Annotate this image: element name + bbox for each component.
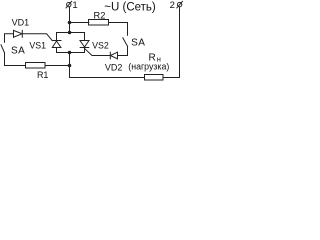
svg-text:2: 2 <box>170 0 175 11</box>
thyristor VS1 <box>29 33 61 53</box>
diode VD1 <box>12 18 30 38</box>
node D junction <box>68 64 72 68</box>
wire VD1 left corner <box>5 34 14 42</box>
svg-text:VS1: VS1 <box>29 40 46 50</box>
terminal 2 <box>177 1 183 8</box>
resistor Rн (load) <box>145 75 164 81</box>
svg-text:SA: SA <box>131 37 145 48</box>
wire node D to load <box>70 66 145 78</box>
wire terminal1 stem <box>69 7 71 33</box>
wire center stem <box>69 53 71 66</box>
svg-text:VD2: VD2 <box>105 63 123 73</box>
node C junction <box>68 51 72 55</box>
svg-text:R1: R1 <box>37 70 49 80</box>
wire load to terminal 2 <box>163 7 180 78</box>
thyristor VS2 <box>80 33 109 53</box>
svg-text:VD1: VD1 <box>12 18 30 28</box>
svg-text:~U (Сеть): ~U (Сеть) <box>104 2 156 14</box>
wire VD1 to VS1 gate <box>22 34 52 41</box>
resistor R1 <box>26 63 46 69</box>
svg-text:SA: SA <box>11 46 25 57</box>
svg-text:R2: R2 <box>94 10 106 20</box>
wire VD2 to VS2 gate <box>85 48 111 55</box>
wire to R2 <box>70 22 89 24</box>
wire bottom rail <box>57 52 85 54</box>
terminal 1 <box>66 1 72 8</box>
svg-text:1: 1 <box>72 0 77 11</box>
wire top rail <box>57 32 85 34</box>
wire switch to VD2 <box>118 46 128 55</box>
switch SA (right) <box>123 37 145 48</box>
wire R1 to node D <box>45 65 70 67</box>
diode VD2 <box>105 52 123 72</box>
wire R2 to switch <box>109 23 128 36</box>
node A junction <box>68 21 72 25</box>
wire switch to R1 <box>5 53 26 66</box>
switch SA (left) <box>1 45 25 57</box>
node B junction <box>68 31 72 35</box>
svg-text:(нагрузка): (нагрузка) <box>128 62 169 72</box>
svg-text:VS2: VS2 <box>92 40 109 50</box>
resistor R2 <box>89 20 109 26</box>
